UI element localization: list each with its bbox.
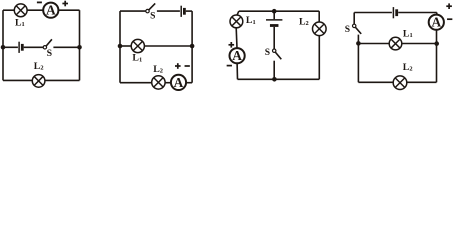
svg-text:A: A [46,3,56,18]
svg-text:L1: L1 [246,15,256,26]
svg-text:L1: L1 [15,18,25,29]
svg-text:L2: L2 [299,16,309,27]
svg-text:L2: L2 [403,62,413,73]
svg-text:L1: L1 [403,28,413,39]
svg-text:S: S [47,48,53,59]
svg-text:L2: L2 [153,64,163,75]
svg-text:S: S [150,12,155,22]
svg-text:S: S [265,48,270,58]
svg-text:L1: L1 [132,53,142,64]
svg-text:S: S [345,25,350,35]
svg-text:A: A [431,15,441,30]
svg-text:L2: L2 [34,61,44,72]
svg-text:A: A [174,75,184,90]
svg-text:A: A [232,48,242,63]
